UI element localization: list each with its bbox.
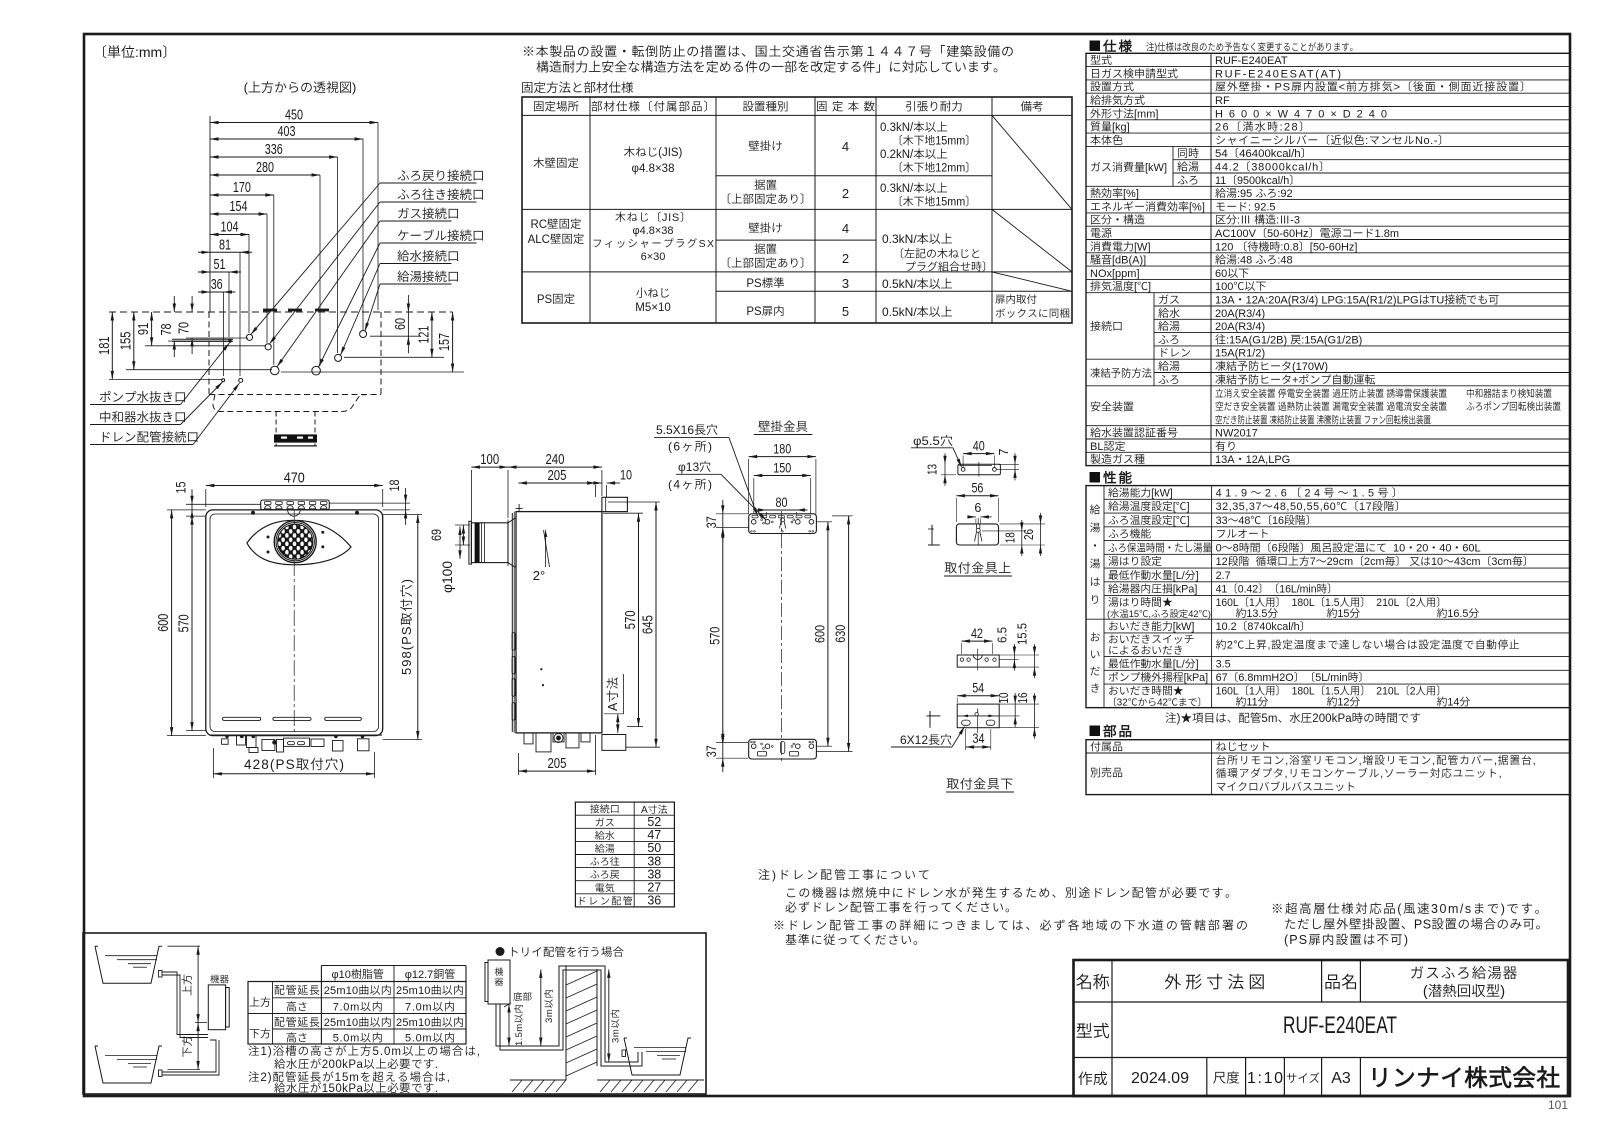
upper fitting dimension 7	[1014, 453, 1016, 480]
side view 2deg annotation	[545, 530, 547, 567]
svg-text:27: 27	[647, 881, 661, 895]
svg-text:備考: 備考	[1021, 99, 1044, 115]
svg-text:A寸法: A寸法	[602, 677, 621, 711]
side view dimension φ100	[459, 527, 461, 559]
svg-text:7.0m以内: 7.0m以内	[333, 999, 383, 1015]
svg-text:42: 42	[971, 626, 983, 641]
spec header ■仕様	[1090, 41, 1101, 52]
svg-text:2°: 2°	[533, 568, 545, 583]
svg-text:φ100: φ100	[437, 561, 457, 593]
lower bath tub	[95, 1046, 162, 1083]
svg-text:高さ: 高さ	[286, 999, 308, 1015]
top view bracket dashes	[263, 309, 277, 312]
vertical dimension 上方/下方	[168, 945, 201, 947]
svg-text:き: き	[1090, 680, 1101, 696]
upper fitting main plate	[956, 524, 998, 545]
svg-text:約16.5分: 約16.5分	[1437, 605, 1480, 621]
svg-text:だ: だ	[1090, 663, 1101, 679]
svg-text:お: お	[1090, 629, 1101, 645]
svg-text:4: 4	[842, 221, 849, 236]
svg-text:15.5: 15.5	[1016, 623, 1030, 645]
bracket center line	[780, 511, 782, 762]
svg-text:湯: 湯	[1090, 520, 1101, 536]
svg-text:3: 3	[842, 276, 849, 291]
side view dimension 69	[462, 525, 464, 545]
spec rows 熱効率〜排気温度	[1086, 199, 1570, 201]
svg-text:3m以内: 3m以内	[541, 989, 555, 1023]
hole ケーブル接続口	[312, 366, 321, 375]
svg-text:38: 38	[647, 854, 661, 868]
top view wall dashed line	[109, 311, 453, 313]
torii ground hatch	[510, 1079, 566, 1081]
bracket dimension 37 top	[722, 500, 724, 542]
spec rows 型式〜本体色	[1086, 66, 1570, 68]
svg-text:固定場所: 固定場所	[533, 99, 579, 115]
svg-text:PS標準: PS標準	[746, 275, 784, 291]
svg-text:排気温度[℃]: 排気温度[℃]	[1090, 278, 1151, 294]
svg-text:外形寸法図: 外形寸法図	[1164, 968, 1269, 993]
svg-text:扉内取付: 扉内取付	[995, 292, 1037, 307]
svg-text:3m以内: 3m以内	[608, 1009, 622, 1043]
svg-text:ふろ: ふろ	[1158, 371, 1180, 387]
svg-text:製造ガス種: 製造ガス種	[1090, 451, 1145, 467]
svg-text:給: 給	[1090, 502, 1101, 518]
svg-text:570: 570	[176, 614, 193, 632]
fixation table grid	[522, 97, 1072, 323]
front view top bracket	[261, 500, 330, 510]
title block frame	[1074, 960, 1569, 1096]
lower fitting plate1	[957, 655, 999, 667]
svg-text:基準に従ってください。: 基準に従ってください。	[785, 931, 925, 948]
upper fitting dimension 26	[1040, 513, 1042, 556]
svg-text:450: 450	[285, 108, 303, 124]
svg-text:6X12長穴: 6X12長穴	[900, 731, 952, 748]
svg-text:40: 40	[973, 439, 985, 454]
hole ふろ往き接続口	[265, 344, 271, 350]
front view dimension 18	[405, 488, 407, 525]
svg-text:約15分: 約15分	[1327, 605, 1361, 621]
svg-text:205: 205	[547, 468, 566, 484]
svg-text:ガス消費量[kW]: ガス消費量[kW]	[1090, 159, 1167, 175]
bracket dimension 600	[827, 522, 829, 746]
svg-text:尺度: 尺度	[1213, 1067, 1240, 1087]
upper fitting small plate	[958, 464, 1001, 475]
svg-text:(6ヶ所): (6ヶ所)	[668, 438, 712, 455]
top view extension lines vertical	[209, 116, 211, 312]
svg-text:部材仕様〔付属部品〕: 部材仕様〔付属部品〕	[591, 99, 715, 115]
svg-text:ガス接続口: ガス接続口	[397, 203, 460, 222]
front view dimension 428(PS取付穴)	[213, 773, 374, 775]
svg-text:69: 69	[428, 529, 444, 541]
bottom-left box frame	[83, 933, 706, 1094]
svg-text:1.5m以内: 1.5m以内	[511, 1004, 525, 1046]
hole 給水接続口	[335, 354, 342, 361]
svg-text:403: 403	[278, 124, 296, 140]
bracket dimension 37 bottom	[722, 730, 724, 772]
svg-text:ふろ: ふろ	[1177, 172, 1199, 188]
svg-text:マイクロバブルバスユニット: マイクロバブルバスユニット	[1216, 779, 1356, 795]
svg-text:注)★項目は、配管5m、水圧200kPa時の時間です: 注)★項目は、配管5m、水圧200kPa時の時間です	[1165, 710, 1421, 726]
svg-text:104: 104	[221, 220, 239, 236]
lower fitting dimension 34	[966, 746, 991, 748]
upper fitting dimension 6	[968, 516, 976, 518]
svg-text:プラグ組合せ時〕: プラグ組合せ時〕	[905, 259, 993, 275]
svg-text:器: 器	[494, 975, 503, 988]
lower fitting plate2	[957, 704, 999, 728]
svg-text:54: 54	[972, 681, 984, 696]
svg-text:26: 26	[1022, 529, 1036, 540]
side view dimension 10	[590, 482, 602, 484]
svg-text:(上方からの透視図): (上方からの透視図)	[244, 77, 357, 96]
svg-text:5.5X16長穴: 5.5X16長穴	[656, 421, 718, 438]
svg-text:ふろ戻り接続口: ふろ戻り接続口	[397, 165, 485, 184]
connecting pipes upper	[162, 972, 208, 1035]
svg-text:155: 155	[118, 332, 134, 351]
hole 中和器水抜き口	[222, 379, 225, 382]
svg-text:PS扉内: PS扉内	[746, 303, 784, 319]
svg-text:壁掛金具: 壁掛金具	[758, 416, 808, 435]
svg-text:配管延長: 配管延長	[274, 982, 320, 998]
svg-text:121: 121	[416, 326, 432, 344]
svg-text:7.0m以内: 7.0m以内	[405, 999, 455, 1015]
svg-text:は: は	[1090, 574, 1101, 590]
svg-text:PS固定: PS固定	[537, 291, 575, 307]
svg-text:安全装置: 安全装置	[1090, 398, 1134, 414]
top view left dim extension lines horizontal	[109, 378, 223, 380]
upper fitting dimension 40	[963, 453, 994, 455]
svg-text:部品: 部品	[1103, 720, 1134, 740]
front view dimension 470	[206, 485, 383, 487]
bracket top plate	[749, 514, 817, 534]
svg-text:36: 36	[647, 894, 661, 908]
svg-text:接続口: 接続口	[1090, 318, 1123, 334]
svg-text:RUF-E240EAT: RUF-E240EAT	[1283, 1012, 1397, 1039]
front view fan screws	[267, 536, 270, 539]
svg-text:ふろポンプ回転検出装置: ふろポンプ回転検出装置	[1466, 398, 1561, 413]
svg-text:型式: 型式	[1076, 1017, 1110, 1042]
svg-text:598(PS取付穴): 598(PS取付穴)	[396, 579, 415, 675]
torii dimension 1.5m以内	[508, 1004, 510, 1046]
upper bath tub	[95, 946, 162, 983]
torii unit 機器	[488, 960, 510, 1004]
performance table row lines	[1104, 498, 1570, 500]
svg-text:ポンプ水抜き口: ポンプ水抜き口	[99, 387, 187, 406]
svg-text:湯: 湯	[1090, 556, 1101, 572]
svg-text:10: 10	[997, 692, 1011, 703]
svg-text:56: 56	[971, 481, 983, 496]
torii bath tub	[624, 1038, 691, 1075]
side view dimension 205 top	[518, 482, 595, 484]
svg-text:約14分: 約14分	[1437, 693, 1471, 709]
connecting pipes lower	[162, 1040, 216, 1072]
svg-text:設置種別: 設置種別	[743, 99, 789, 115]
svg-text:上方: 上方	[249, 994, 271, 1010]
svg-text:別売品: 別売品	[1090, 765, 1123, 781]
parts table	[1086, 740, 1570, 795]
svg-text:名称: 名称	[1076, 968, 1110, 993]
svg-text:336: 336	[265, 142, 283, 158]
side view dots	[540, 668, 542, 670]
svg-text:ドレン配管接続口: ドレン配管接続口	[99, 427, 199, 446]
svg-text:機器: 機器	[210, 972, 230, 986]
svg-text:154: 154	[230, 199, 248, 215]
svg-text:70: 70	[177, 322, 193, 334]
top view left vertical dimensions 181/155/91/78/70	[111, 312, 113, 379]
svg-text:構造耐力上安全な構造方法を定める件の一部を改定する件」に対応: 構造耐力上安全な構造方法を定める件の一部を改定する件」に対応しています。	[536, 57, 1006, 76]
svg-text:60: 60	[393, 318, 409, 330]
svg-text:600: 600	[155, 614, 172, 632]
svg-text:13: 13	[926, 464, 940, 475]
svg-text:18: 18	[386, 479, 402, 491]
fixation remarks diagonals	[992, 115, 1072, 209]
top view body dashed outline	[208, 312, 210, 395]
svg-text:A寸法: A寸法	[641, 801, 668, 816]
front view center line	[293, 510, 295, 736]
upper fitting dimension 13	[944, 453, 946, 486]
svg-text:150: 150	[773, 460, 791, 476]
svg-text:37: 37	[704, 745, 719, 757]
lower fitting dimension 6.5	[1013, 644, 1015, 671]
performance table outer frame	[1086, 486, 1570, 708]
svg-text:25m10曲以内: 25m10曲以内	[324, 1014, 392, 1030]
side view top tick	[518, 504, 520, 512]
svg-text:470: 470	[284, 470, 305, 487]
svg-text:181: 181	[97, 336, 113, 355]
side view dimension 645	[655, 502, 657, 747]
svg-text:36: 36	[211, 277, 223, 293]
svg-text:φ4.8×38: φ4.8×38	[632, 160, 675, 176]
torii dimension 3m以内 left	[540, 969, 542, 1046]
lower fitting dimension 10	[1014, 693, 1016, 727]
svg-text:170: 170	[233, 180, 251, 196]
front view dimension 600	[171, 510, 173, 736]
svg-text:トリイ配管を行う場合: トリイ配管を行う場合	[508, 944, 625, 960]
svg-text:15: 15	[173, 481, 189, 493]
top view right dim extension lines	[370, 335, 420, 337]
svg-text:16: 16	[1016, 692, 1030, 703]
svg-text:13A・12A,LPG: 13A・12A,LPG	[1215, 451, 1290, 467]
svg-text:〔木下地12mm〕: 〔木下地12mm〕	[892, 160, 976, 176]
bracket dimension 80	[756, 509, 808, 511]
svg-text:付属品: 付属品	[1090, 739, 1123, 755]
front view dimension 570	[191, 516, 193, 731]
lower fitting dimension 16	[1034, 693, 1036, 739]
svg-text:5: 5	[842, 304, 849, 319]
svg-text:壁掛け: 壁掛け	[748, 138, 783, 154]
front view top screws	[251, 511, 255, 515]
svg-text:81: 81	[219, 237, 231, 253]
svg-text:木壁固定: 木壁固定	[533, 155, 579, 171]
svg-text:205: 205	[547, 756, 566, 772]
hole ふろ戻り接続口	[246, 334, 252, 340]
svg-text:180: 180	[773, 441, 791, 457]
side view dimension 240	[508, 466, 602, 468]
svg-text:注)ドレン配管工事について: 注)ドレン配管工事について	[758, 866, 930, 883]
svg-text:570: 570	[623, 610, 639, 629]
svg-text:約2℃上昇,設定温度まで達しない場合は設定温度で自動停止: 約2℃上昇,設定温度まで達しない場合は設定温度で自動停止	[1216, 636, 1520, 652]
front view bottom fittings	[209, 734, 382, 736]
front view louver slots	[223, 717, 261, 720]
front view body	[206, 510, 383, 736]
top view right vertical dimensions 60/121/157	[407, 295, 409, 353]
svg-text:100: 100	[480, 452, 499, 468]
svg-text:引張り耐力: 引張り耐力	[905, 99, 963, 115]
svg-text:約12分: 約12分	[1327, 693, 1361, 709]
side view rear top bracket	[602, 497, 628, 511]
side view bottom fittings	[524, 733, 533, 744]
svg-text:47: 47	[647, 828, 661, 842]
side view dimension 100	[471, 466, 508, 468]
svg-text:25m10曲以内: 25m10曲以内	[396, 1014, 464, 1030]
side view flue pipe	[471, 523, 508, 563]
svg-text:2: 2	[842, 186, 849, 201]
svg-text:A3: A3	[1331, 1070, 1351, 1087]
svg-text:本体色: 本体色	[1090, 132, 1123, 148]
svg-text:下方: 下方	[179, 1036, 195, 1058]
svg-text:い: い	[1090, 646, 1101, 662]
torii piping path	[496, 966, 638, 1062]
svg-text:(潜熱回収型): (潜熱回収型)	[1423, 980, 1505, 1001]
svg-text:φ12.7銅管: φ12.7銅管	[405, 966, 456, 982]
svg-text:ドレン配管: ドレン配管	[577, 892, 633, 907]
svg-text:必ずドレン配管工事を行ってください。: 必ずドレン配管工事を行ってください。	[785, 899, 1017, 916]
svg-text:18: 18	[1004, 532, 1018, 543]
top view drain pipe black band	[274, 434, 317, 442]
piping length table	[321, 965, 466, 967]
side view dimension 570	[638, 513, 640, 726]
performance header ■性能	[1090, 472, 1101, 483]
parts header ■部品	[1090, 726, 1101, 737]
svg-text:リンナイ株式会社: リンナイ株式会社	[1368, 1059, 1561, 1093]
top view horizontal dimensions 450/403/336/280/170/154/104	[210, 122, 378, 124]
svg-text:固定本数: 固定本数	[816, 99, 876, 115]
svg-text:〔単位:mm〕: 〔単位:mm〕	[93, 42, 176, 62]
svg-text:1:10: 1:10	[1247, 1070, 1283, 1087]
svg-text:78: 78	[159, 324, 175, 336]
svg-text:作成: 作成	[1078, 1068, 1108, 1089]
svg-text:凍結予防方法: 凍結予防方法	[1090, 365, 1152, 381]
svg-text:φ13穴: φ13穴	[678, 458, 711, 475]
svg-text:〔木下地15mm〕: 〔木下地15mm〕	[892, 194, 976, 210]
svg-text:428(PS取付穴): 428(PS取付穴)	[244, 753, 344, 773]
svg-text:取付金具上: 取付金具上	[944, 558, 1012, 577]
svg-text:M5×10: M5×10	[635, 299, 670, 315]
svg-text:51: 51	[214, 257, 226, 273]
svg-text:25m10曲以内: 25m10曲以内	[396, 982, 464, 998]
svg-text:37: 37	[704, 516, 719, 528]
svg-text:中和器水抜き口: 中和器水抜き口	[99, 407, 187, 426]
svg-text:木ねじ(JIS): 木ねじ(JIS)	[624, 144, 683, 160]
side view dimension 205 bottom	[518, 770, 595, 772]
side view body	[516, 512, 602, 733]
svg-text:80: 80	[775, 494, 787, 510]
front view dimension 598(PS取付穴)	[417, 515, 419, 740]
top view bracket plate lines	[172, 338, 233, 340]
svg-text:0.5kN/本以上: 0.5kN/本以上	[882, 303, 953, 320]
svg-text:4: 4	[842, 139, 849, 154]
hole ドレン配管接続口	[239, 378, 243, 382]
torii wall with hatching	[565, 965, 567, 1080]
torii dimension 3m以内 right	[608, 969, 610, 1062]
svg-text:630: 630	[832, 625, 848, 643]
svg-text:10.2〔8740kcal/h〕: 10.2〔8740kcal/h〕	[1216, 618, 1311, 634]
svg-text:600: 600	[811, 625, 827, 643]
svg-text:給水圧が150kPa以上必要です.: 給水圧が150kPa以上必要です.	[274, 1080, 438, 1096]
bracket dimension 570	[722, 529, 724, 742]
svg-text:645: 645	[641, 615, 657, 634]
front view fan shroud	[247, 520, 351, 565]
hole ポンプ水抜き口	[229, 340, 231, 342]
svg-text:給水接続口: 給水接続口	[397, 246, 460, 265]
svg-text:〔上部固定あり〕: 〔上部固定あり〕	[720, 191, 812, 207]
lower fitting dimension 42	[961, 640, 992, 642]
svg-text:280: 280	[256, 160, 274, 176]
top view drain pipe dashed	[275, 412, 277, 446]
svg-text:ケーブル接続口: ケーブル接続口	[397, 225, 485, 244]
svg-text:り: り	[1090, 592, 1101, 608]
svg-text:〔上部固定あり〕: 〔上部固定あり〕	[720, 255, 812, 271]
svg-text:配管延長: 配管延長	[274, 1014, 320, 1030]
svg-text:取付金具下: 取付金具下	[946, 774, 1014, 793]
svg-text:・: ・	[1090, 538, 1101, 554]
front view dimension 15	[191, 489, 193, 525]
hole 給湯接続口	[360, 331, 367, 338]
svg-text:ふろ往き接続口: ふろ往き接続口	[397, 184, 485, 203]
svg-text:上方: 上方	[179, 974, 195, 996]
hole ガス接続口	[270, 366, 279, 375]
svg-text:0.5kN/本以上: 0.5kN/本以上	[882, 275, 953, 292]
svg-text:給湯接続口: 給湯接続口	[397, 266, 460, 285]
svg-text:(4ヶ所): (4ヶ所)	[668, 476, 712, 493]
svg-text:〔32℃から42℃まで〕: 〔32℃から42℃まで〕	[1107, 694, 1207, 708]
lower fitting dimension 54	[957, 695, 999, 697]
svg-text:(PS扉内設置は不可): (PS扉内設置は不可)	[1284, 929, 1408, 948]
svg-text:38: 38	[647, 867, 661, 881]
svg-text:壁掛け: 壁掛け	[748, 220, 783, 236]
svg-text:約11分: 約11分	[1236, 693, 1269, 709]
side view louver slots	[512, 633, 515, 651]
bracket dimension 180	[749, 456, 816, 458]
torii piping title	[496, 947, 505, 956]
spec table outer frame	[1086, 53, 1570, 465]
bracket bottom plate	[749, 739, 817, 759]
svg-text:34: 34	[973, 731, 985, 746]
svg-text:RC壁固定: RC壁固定	[530, 216, 581, 232]
side view rear bottom bracket	[602, 735, 626, 751]
svg-text:52: 52	[647, 815, 661, 829]
svg-text:0.3kN/本以上: 0.3kN/本以上	[882, 230, 953, 247]
svg-text:品名: 品名	[1324, 968, 1358, 993]
svg-text:底部: 底部	[513, 989, 533, 1003]
bracket dimension 630	[848, 516, 850, 752]
top view bottom cover dashed outline	[213, 395, 367, 412]
svg-text:下方: 下方	[249, 1026, 271, 1042]
upper fitting L mark	[931, 525, 933, 545]
svg-text:50: 50	[647, 841, 661, 855]
svg-text:6: 6	[974, 501, 981, 515]
svg-text:6.5: 6.5	[996, 627, 1010, 643]
svg-text:157: 157	[437, 333, 453, 351]
svg-text:ALC壁固定: ALC壁固定	[528, 231, 585, 247]
svg-text:屋外壁掛・PS扉内設置<前方排気>〔後面・側面近接設置〕: 屋外壁掛・PS扉内設置<前方排気>〔後面・側面近接設置〕	[1215, 79, 1531, 95]
bracket dimension 150	[754, 475, 811, 477]
svg-text:固定方法と部材仕様: 固定方法と部材仕様	[521, 77, 634, 96]
svg-text:101: 101	[1548, 1098, 1568, 1112]
svg-text:240: 240	[545, 452, 564, 468]
svg-text:φ5.5穴: φ5.5穴	[913, 432, 953, 449]
upper fitting dimension 18	[1021, 520, 1023, 556]
svg-text:7: 7	[997, 448, 1011, 455]
